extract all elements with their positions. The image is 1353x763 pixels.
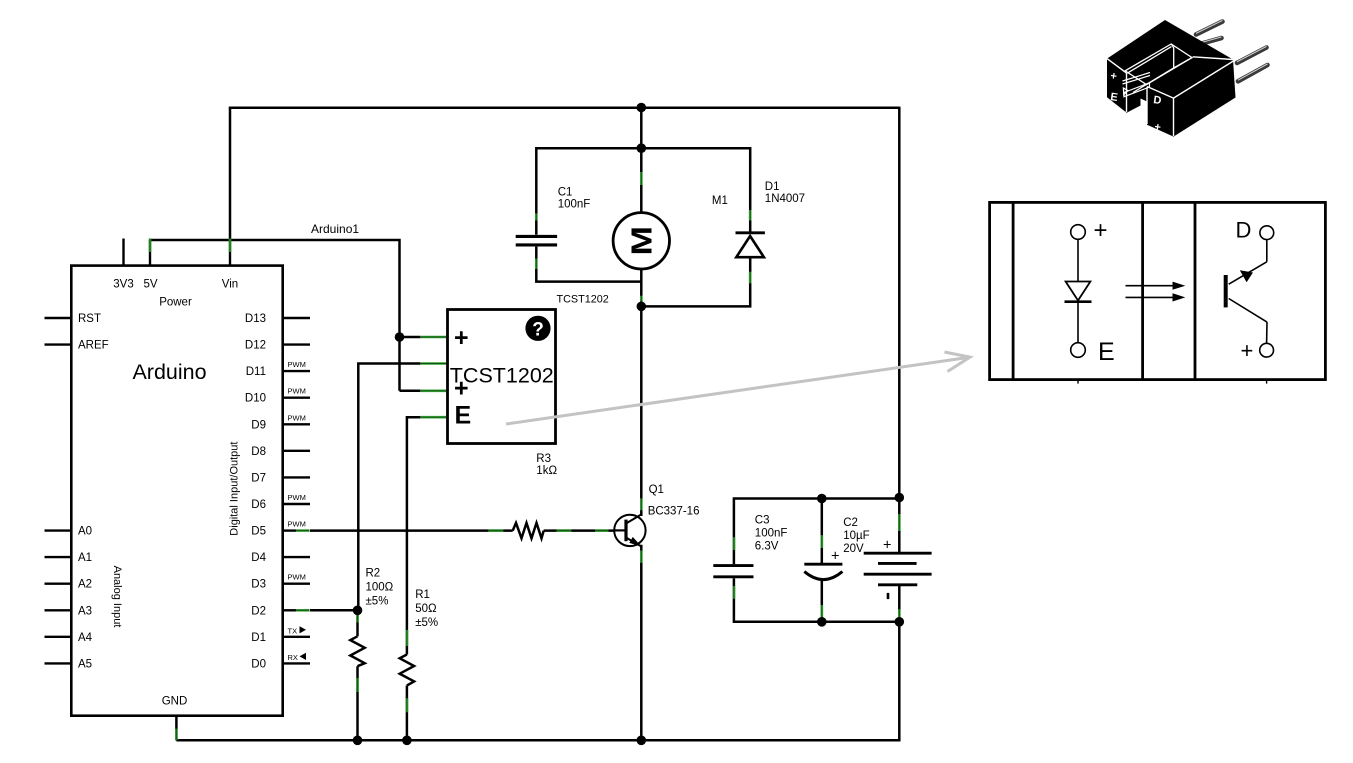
svg-text:+: +	[1241, 338, 1254, 363]
TCST pin 1	[420, 336, 446, 339]
svg-text:A1: A1	[78, 552, 92, 564]
pin A0 stub	[45, 529, 72, 531]
wire D5 to R3	[310, 529, 513, 532]
wire emitter drop	[640, 545, 643, 741]
svg-text:C1: C1	[558, 187, 573, 199]
svg-text:A3: A3	[78, 605, 92, 617]
C2 top pin	[820, 535, 823, 548]
pin RST stub	[45, 317, 72, 319]
pin D3 stub	[283, 583, 310, 585]
RX triangle	[300, 653, 307, 660]
svg-text:3V3: 3V3	[113, 279, 133, 291]
pin 5V stub	[149, 240, 151, 266]
svg-text:D11: D11	[246, 366, 266, 378]
junction battery bottom	[895, 617, 905, 627]
svg-text:D12: D12	[245, 340, 266, 352]
svg-text:+: +	[883, 538, 891, 554]
svg-text:10µF: 10µF	[843, 530, 869, 542]
wire C1 bottom lead	[536, 247, 641, 282]
M1 bottom pin	[640, 296, 643, 302]
pin D6 stub	[283, 503, 310, 505]
pin 5V green	[149, 239, 152, 253]
LED symbol	[1065, 225, 1092, 384]
wire battery bottom lead	[898, 585, 901, 622]
C1 top pin	[535, 213, 538, 220]
wire C2 bottom lead	[821, 580, 824, 622]
wire right rail	[898, 107, 901, 498]
svg-text:A4: A4	[78, 632, 93, 644]
pin Vin stub	[229, 240, 231, 266]
C3 top pin	[733, 537, 736, 550]
svg-text:D1: D1	[765, 181, 780, 193]
svg-text:Vin: Vin	[222, 279, 238, 291]
sensor windows	[1123, 73, 1151, 97]
pin D4 stub	[283, 556, 310, 558]
svg-text:M: M	[625, 226, 657, 255]
wire TCST pin D net	[358, 364, 420, 611]
TCST1202 photo 3D view	[1107, 20, 1268, 137]
svg-text:RX: RX	[288, 653, 298, 662]
junction R2 gnd	[353, 736, 363, 746]
battery B1	[864, 553, 932, 585]
C1 bottom pin	[535, 259, 538, 270]
pin D8 stub	[283, 450, 310, 452]
wire D1 bottom	[641, 257, 750, 306]
svg-text:+: +	[454, 375, 469, 403]
svg-text:1kΩ: 1kΩ	[536, 465, 557, 477]
pin D12 stub	[283, 343, 310, 345]
phototransistor arrow	[1240, 270, 1253, 282]
svg-text:D6: D6	[251, 499, 266, 511]
svg-text:D5: D5	[251, 526, 266, 538]
svg-text:Q1: Q1	[649, 484, 664, 496]
pin D0 stub	[283, 662, 310, 664]
wire TCST pin3	[400, 390, 421, 393]
svg-text:6.3V: 6.3V	[755, 541, 779, 553]
GND pin green	[175, 729, 178, 740]
svg-text:D8: D8	[251, 446, 266, 458]
phototransistor symbol	[1226, 226, 1274, 384]
svg-text:Power: Power	[159, 297, 192, 309]
wire motor bottom lead	[640, 269, 643, 307]
wire TCST pin E net	[407, 417, 421, 654]
svg-text:D7: D7	[251, 472, 266, 484]
svg-text:+: +	[454, 324, 469, 352]
svg-text:C3: C3	[755, 515, 770, 527]
svg-text:Digital Input/Output: Digital Input/Output	[228, 442, 240, 536]
junction C2 bottom	[817, 617, 827, 627]
svg-text:100nF: 100nF	[755, 528, 788, 540]
svg-text:D3: D3	[251, 579, 266, 591]
panel divider 1	[1012, 202, 1015, 379]
wire R2 top lead	[356, 610, 359, 636]
R3 pin right	[557, 529, 572, 532]
capacitor C2 polarized	[804, 564, 842, 579]
pin D11 stub	[283, 370, 310, 372]
svg-text:D4: D4	[251, 552, 266, 564]
TCST pin 3	[420, 389, 446, 392]
wire motor branch drop	[640, 108, 643, 213]
svg-text:E: E	[455, 402, 472, 430]
battery bottom pin	[898, 609, 901, 619]
wire R3 to Q1 base	[544, 529, 615, 532]
svg-text:?: ?	[532, 319, 544, 340]
wire top rail	[229, 107, 900, 110]
pin Vin green	[229, 239, 232, 253]
pin A2 stub	[45, 583, 72, 585]
pin D7 stub	[283, 476, 310, 478]
pin D9 stub	[283, 423, 310, 425]
body silhouette	[1107, 20, 1236, 137]
D1 top pin	[749, 210, 752, 221]
svg-text:Analog Input: Analog Input	[111, 566, 123, 628]
pin A3 stub	[45, 609, 72, 611]
svg-text:E: E	[1098, 338, 1115, 366]
pin D10 stub	[283, 397, 310, 399]
svg-text:TX: TX	[288, 626, 298, 635]
svg-text:20V: 20V	[843, 543, 864, 555]
pin D13 stub	[283, 317, 310, 319]
svg-text:D13: D13	[245, 313, 266, 325]
3D labels	[1110, 70, 1163, 134]
svg-text:PWM: PWM	[288, 387, 306, 396]
wire cap group bottom rail	[734, 578, 899, 622]
junction R1 gnd	[402, 736, 412, 746]
svg-text:+: +	[1154, 121, 1162, 134]
pin 3V3 stub	[122, 239, 124, 266]
pin A5 stub	[45, 662, 72, 664]
svg-text:±5%: ±5%	[366, 596, 389, 608]
pin D2 stub	[283, 609, 296, 611]
wire R2 bottom lead	[356, 666, 359, 740]
svg-text:C2: C2	[843, 517, 858, 529]
junction top rail motor	[637, 103, 647, 113]
slot rim	[1123, 44, 1192, 95]
svg-text:Arduino: Arduino	[132, 360, 206, 384]
svg-text:PWM: PWM	[288, 413, 306, 422]
resistor R2	[350, 636, 364, 666]
svg-text:D0: D0	[251, 658, 266, 670]
Q1 emitter pin	[640, 551, 643, 563]
pin D2 green	[296, 609, 310, 612]
junction motor bottom	[637, 302, 647, 312]
junction battery top	[895, 493, 905, 503]
junction loop top	[637, 143, 647, 153]
pin D1 stub	[283, 636, 310, 638]
C3 bottom pin	[733, 586, 736, 599]
R3 pin left	[488, 529, 503, 532]
wire GND stub	[175, 716, 178, 741]
pin A4 stub	[45, 636, 72, 638]
wire collector drop	[640, 306, 643, 516]
transistor Q1	[614, 514, 645, 547]
C2 bottom pin	[820, 605, 823, 618]
junction C2 top	[817, 494, 827, 504]
svg-text:D: D	[1236, 218, 1252, 243]
wire motor loop top	[536, 148, 750, 235]
resistor R3	[513, 523, 544, 538]
svg-text:RST: RST	[78, 313, 101, 325]
motor M1	[613, 213, 669, 269]
svg-text:A0: A0	[78, 526, 92, 538]
Q1 base pin	[595, 529, 609, 532]
svg-text:100Ω: 100Ω	[366, 582, 394, 594]
svg-text:PWM: PWM	[288, 493, 306, 502]
svg-text:50Ω: 50Ω	[415, 603, 437, 615]
pin A1 stub	[45, 556, 72, 558]
svg-text:PWM: PWM	[288, 360, 306, 369]
svg-text:R1: R1	[415, 589, 430, 601]
svg-text:±5%: ±5%	[415, 617, 438, 629]
gray pointer arrow	[506, 352, 970, 424]
svg-text:TCST1202: TCST1202	[557, 294, 609, 306]
wire bottom right riser	[898, 622, 901, 742]
svg-text:AREF: AREF	[78, 340, 109, 352]
wire Vin vertical	[229, 108, 232, 241]
pin D5 stub	[283, 529, 296, 531]
svg-text:100nF: 100nF	[558, 199, 591, 211]
resistor R1	[400, 655, 414, 686]
M1 top pin	[640, 172, 643, 185]
svg-text:D10: D10	[245, 393, 266, 405]
light arrows	[1126, 282, 1186, 302]
diode D1	[736, 233, 765, 257]
pin AREF stub	[45, 343, 72, 345]
capacitor C1	[516, 236, 557, 245]
svg-text:A2: A2	[78, 579, 92, 591]
green pin cores top	[150, 239, 230, 253]
R1 top pin	[406, 630, 409, 646]
help badge	[525, 316, 550, 341]
panel divider 3	[1194, 202, 1197, 379]
junction D2 R2	[353, 606, 363, 616]
svg-text:PWM: PWM	[288, 520, 306, 529]
wire Arduino1 5V to TCST	[150, 240, 400, 391]
Q1 collector pin	[640, 498, 643, 510]
TCST pin 2	[420, 362, 446, 365]
svg-text:BC337-16: BC337-16	[648, 506, 700, 518]
wire battery top lead	[898, 498, 901, 554]
pin D5 green	[296, 529, 310, 532]
body edges	[1107, 57, 1235, 136]
TX triangle	[300, 626, 307, 633]
svg-text:D9: D9	[251, 419, 266, 431]
pins of 3D part	[1196, 22, 1268, 82]
svg-text:R2: R2	[366, 568, 381, 580]
green pin cores	[176, 172, 899, 740]
panel frame	[990, 202, 1326, 379]
capacitor C3	[713, 566, 753, 577]
svg-text:R3: R3	[536, 453, 551, 465]
wire TCST pin1	[400, 336, 421, 339]
TCST pin 4	[420, 416, 446, 419]
svg-text:A5: A5	[78, 658, 92, 670]
R2 bottom pin	[356, 678, 359, 692]
R1 bottom pin	[406, 698, 409, 712]
svg-text:1N4007: 1N4007	[765, 193, 805, 205]
TCST1202 module	[448, 310, 556, 444]
svg-text:Arduino1: Arduino1	[311, 222, 359, 236]
label battery minus	[887, 593, 890, 599]
wire bottom rail	[176, 739, 899, 742]
svg-text:D2: D2	[251, 605, 266, 617]
svg-text:GND: GND	[162, 696, 188, 708]
junction emitter gnd	[637, 736, 647, 746]
wire C2 top lead	[821, 499, 824, 565]
D1 bottom pin	[749, 272, 752, 284]
svg-text:5V: 5V	[143, 279, 157, 291]
svg-text:+: +	[831, 549, 839, 565]
battery top pin	[898, 514, 901, 531]
Arduino body	[71, 266, 282, 716]
R2 top pin	[356, 615, 359, 622]
wire R1 bottom lead	[406, 686, 409, 741]
schematic symbol panel	[990, 202, 1326, 379]
svg-text:D1: D1	[251, 632, 266, 644]
wire D2 to R2	[310, 609, 358, 612]
svg-text:+: +	[1094, 217, 1108, 244]
svg-text:M1: M1	[712, 195, 728, 207]
wire cap group top rail	[734, 499, 899, 565]
Arduino module U-Arduino	[45, 239, 311, 716]
junction TCST pin1	[395, 332, 405, 342]
panel divider 2	[1141, 202, 1144, 379]
svg-text:PWM: PWM	[288, 573, 306, 582]
